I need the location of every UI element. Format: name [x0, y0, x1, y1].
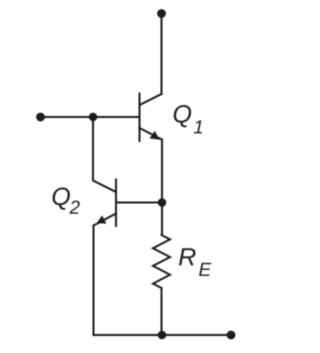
label Q1	[174, 105, 202, 133]
wire Q1 emitter down	[161, 140, 163, 236]
transistor Q1	[140, 94, 163, 142]
transistor Q2	[94, 180, 117, 227]
resistor RE	[153, 235, 170, 288]
node junction bottom	[158, 331, 167, 340]
wire base Q2	[116, 202, 162, 204]
wire bottom rail	[94, 334, 232, 336]
label Q2	[53, 188, 80, 214]
node left terminal	[36, 113, 45, 122]
wire top collector lead	[161, 13, 163, 94]
node junction emitter	[158, 198, 167, 207]
node junction base	[89, 113, 97, 121]
wire Q2 emitter down	[93, 226, 95, 336]
label RE	[179, 248, 211, 276]
node right terminal	[227, 331, 236, 340]
wire junction down to Q2 collector	[93, 117, 116, 192]
wire base Q1	[41, 116, 140, 118]
wire resistor to bottom	[161, 288, 163, 335]
node top terminal	[157, 9, 166, 18]
